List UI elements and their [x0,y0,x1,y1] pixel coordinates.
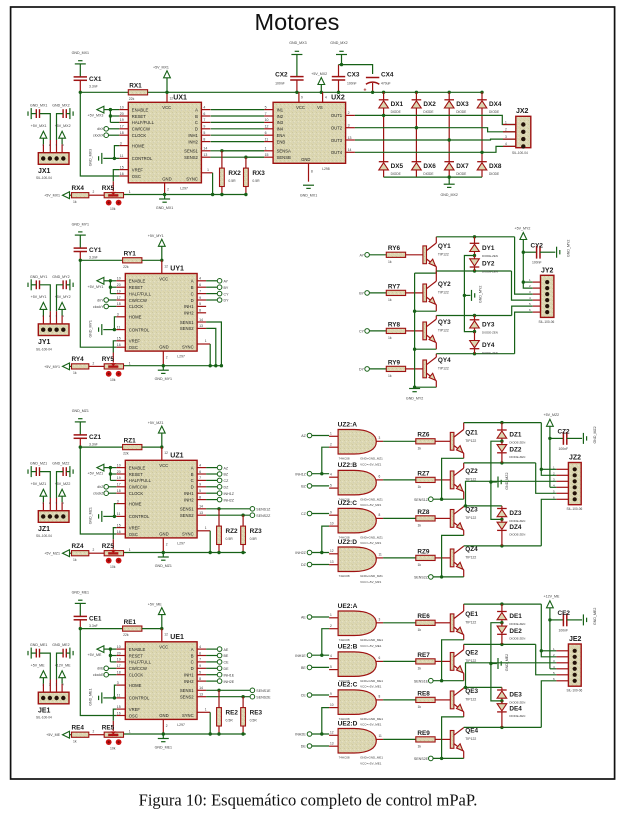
diode DE4 [497,701,525,728]
pin 9 VCC stub UX2 [299,92,303,102]
svg-text:6: 6 [199,651,201,655]
transistor QE2 TIP122 [450,649,478,673]
supply arrow +5V_MY1 [44,363,71,370]
svg-text:DIODE-ZEN: DIODE-ZEN [482,331,498,335]
resistor RE8 [416,690,435,709]
svg-text:SENS2: SENS2 [180,695,194,700]
ground GND_MY2 zeners [464,286,482,303]
svg-text:VCC=+5V_ME1: VCC=+5V_ME1 [360,685,382,689]
svg-text:INH2: INH2 [184,679,194,684]
svg-text:10: 10 [117,463,121,467]
pin 12 VCC stub [162,260,168,273]
svg-text:VCC=+5V_ME1: VCC=+5V_ME1 [360,723,382,727]
junction top col DX4 [480,91,483,94]
svg-text:+5V_ME: +5V_ME [46,733,60,737]
svg-text:SENS1Z: SENS1Z [414,498,429,502]
svg-text:CZ1: CZ1 [89,434,102,441]
svg-text:UZ2:B: UZ2:B [338,462,358,469]
svg-text:5: 5 [330,665,332,669]
svg-text:RE2: RE2 [226,709,239,716]
svg-text:10: 10 [117,645,121,649]
svg-text:A: A [191,647,194,652]
wire emitter QY4 [413,381,436,389]
node AY [206,279,229,284]
svg-text:RZ3: RZ3 [250,528,263,535]
svg-text:11: 11 [379,734,383,738]
transistor QZ3 TIP122 [450,506,478,530]
svg-text:7: 7 [203,118,205,122]
svg-text:13: 13 [203,153,207,157]
svg-text:OUT3: OUT3 [331,138,343,143]
svg-text:DIODE: DIODE [489,172,499,176]
svg-text:+5V_MY2: +5V_MY2 [55,295,71,299]
node INH2E input [295,732,312,737]
svg-text:+5V_MY1: +5V_MY1 [44,365,60,369]
trimmer RY5 [102,356,131,382]
svg-text:19: 19 [117,658,121,662]
svg-text:B: B [191,285,194,290]
svg-text:DX1: DX1 [391,101,404,108]
wire BY to JY2 pin4 [512,271,533,300]
svg-text:9: 9 [199,483,201,487]
svg-text:B: B [191,472,194,477]
svg-text:4: 4 [199,277,201,281]
node clockY [93,304,116,309]
wire SENS2 net [210,156,264,159]
svg-text:20: 20 [117,470,121,474]
connector JE1 [36,682,69,719]
wire SENS2 to ground rail [206,328,217,367]
svg-text:2: 2 [166,542,168,546]
svg-text:DIODE-ZEN: DIODE-ZEN [509,714,525,718]
diode DY1 [470,237,498,258]
node BZ [206,472,229,477]
svg-text:GND_MX2: GND_MX2 [330,41,347,45]
svg-text:SIL-100-04: SIL-100-04 [36,176,52,180]
capacitor CE2 [550,610,582,633]
ground GND_MY1 [72,222,89,248]
svg-text:RZ6: RZ6 [417,432,430,439]
wire base RE6 [435,622,450,624]
svg-text:2: 2 [166,724,168,728]
wire SENS1 net [206,507,271,512]
wire base RZ9 [435,557,450,559]
svg-text:8: 8 [199,677,201,681]
svg-text:74HC08: 74HC08 [339,574,350,578]
svg-text:1k: 1k [418,628,422,632]
node AY [359,253,386,258]
supply arrow +5V_MZ2 [55,482,71,514]
ground GND_MX1 [72,51,89,77]
node CZ [206,478,229,483]
svg-text:+12V_ME: +12V_ME [55,663,71,667]
svg-text:1: 1 [265,147,267,151]
svg-text:INH2E: INH2E [295,733,306,737]
svg-text:1: 1 [205,339,207,343]
wire phase AZ [464,421,542,424]
svg-text:10: 10 [265,118,269,122]
junction CE2 [548,618,551,621]
svg-text:15: 15 [265,153,269,157]
capacitor JZ1 bypass 2 [57,467,70,514]
svg-text:GND_MY2: GND_MY2 [52,275,69,279]
svg-text:DY4: DY4 [482,342,495,349]
diode DX8 [477,162,502,177]
node dirE [97,666,116,671]
svg-text:2: 2 [93,730,95,734]
wire gate out A [383,440,416,442]
svg-text:DZ4: DZ4 [509,524,522,531]
svg-text:CLOCK: CLOCK [129,304,144,309]
svg-text:QZ4: QZ4 [465,546,478,553]
wire OSC net [80,447,116,534]
wire emitter QY3 [413,343,436,351]
node CE [206,660,229,665]
wire OSC net [80,92,119,176]
ground GND_MX1 [28,104,47,120]
svg-text:1k: 1k [418,745,422,749]
svg-text:RZ2: RZ2 [226,528,239,535]
svg-text:clockY: clockY [93,305,104,309]
svg-text:ENABLE: ENABLE [129,465,146,470]
svg-text:L297: L297 [177,355,185,359]
svg-text:3: 3 [117,499,119,503]
svg-text:10k: 10k [110,378,116,382]
svg-text:SENSB: SENSB [277,155,291,160]
wire collector QY3 [435,316,437,320]
svg-text:20: 20 [120,112,124,116]
svg-text:INH2: INH2 [184,497,194,502]
wire phase CZ [464,504,502,507]
svg-text:SIL-100-04: SIL-100-04 [512,151,528,155]
svg-text:+5V_MY1: +5V_MY1 [88,285,104,289]
svg-text:dirX: dirX [97,127,104,131]
wire base RE8 [435,699,450,701]
svg-text:4: 4 [505,142,507,146]
capacitor CE1 [74,615,102,628]
connector JZ2 [553,455,582,512]
svg-text:clockE: clockE [93,673,104,677]
svg-text:4: 4 [330,654,332,658]
svg-text:DIODE: DIODE [423,172,433,176]
svg-text:470uF: 470uF [381,82,391,86]
svg-text:TIP122: TIP122 [465,439,476,443]
wire base RZ8 [435,517,450,519]
resistor RX3 [244,157,266,196]
wire emitter bus row2 [414,273,416,388]
svg-text:74HC08: 74HC08 [339,756,350,760]
capacitor CY2 [523,242,555,264]
svg-text:HALF/FULL: HALF/FULL [129,478,152,483]
svg-text:+5V_MX3: +5V_MX3 [88,114,104,118]
svg-text:13: 13 [199,324,203,328]
svg-text:17: 17 [117,296,121,300]
svg-text:DIODE: DIODE [489,110,499,114]
wire C input [312,694,329,696]
svg-text:SIL-100-06: SIL-100-06 [567,507,583,511]
AND gate UE2:D 74HC08 [329,720,383,765]
AND gate UZ2:C 74HC08 [329,500,383,545]
svg-text:2: 2 [166,356,168,360]
UX1 left pin stubs [119,105,128,176]
svg-text:8: 8 [199,495,201,499]
supply arrow +5V_MZ1 [44,550,71,557]
svg-text:GND: GND [159,531,168,536]
svg-text:JY1: JY1 [38,339,51,346]
svg-text:JZ2: JZ2 [569,455,581,462]
supply arrow +5V_ME [31,663,47,695]
svg-text:15: 15 [120,165,124,169]
svg-text:DIODE-ZEN: DIODE-ZEN [482,254,498,258]
svg-text:B: B [195,114,198,119]
ground GND_ME1 [155,719,172,749]
resistor RZ9 [416,548,435,567]
wire OSC net [80,260,116,347]
resistor RZ6 [416,432,435,451]
node DZ [206,485,229,490]
svg-text:SIL-100-06: SIL-100-06 [539,320,555,324]
svg-text:1: 1 [505,120,507,124]
svg-text:+5V_ME: +5V_ME [148,602,162,606]
resistor RZ1 [123,438,142,456]
svg-text:RZ8: RZ8 [417,509,430,516]
svg-text:DZ3: DZ3 [509,510,522,517]
svg-text:6: 6 [379,475,381,479]
svg-text:1k: 1k [73,200,77,204]
node AE [206,647,229,652]
diode DY3 [470,316,498,335]
svg-text:VREF: VREF [132,167,144,172]
svg-text:OUT2: OUT2 [331,126,343,131]
capacitor CX3 [332,65,360,94]
svg-text:GND_MY1: GND_MY1 [89,320,93,337]
connector JX1 [36,143,69,180]
wire phase DY [436,352,514,355]
svg-text:RY5: RY5 [102,356,115,363]
wire B input [312,485,329,487]
svg-text:12: 12 [265,125,269,129]
svg-text:SIL-100-04: SIL-100-04 [36,347,52,351]
supply arrow +5V_MY2 [515,227,531,283]
svg-text:11: 11 [117,512,121,516]
AND gate UZ2:B 74HC08 [329,462,383,507]
svg-text:RE6: RE6 [417,613,430,620]
svg-text:INH1E: INH1E [295,654,306,658]
diode DE2 [497,623,525,645]
svg-text:AE: AE [224,648,229,652]
svg-text:6: 6 [203,112,205,116]
svg-text:CX4: CX4 [381,72,394,79]
wire base RE9 [435,738,450,740]
wire ground rail [124,552,246,554]
svg-text:1k: 1k [418,705,422,709]
svg-text:DE2: DE2 [509,628,522,635]
svg-text:11: 11 [120,154,124,158]
wire R4-R5 [89,361,104,366]
diode DE1 [497,604,525,626]
svg-text:7: 7 [199,289,201,293]
capacitor JE1 bypass 1 [31,649,50,696]
svg-text:GND_MX1: GND_MX1 [300,194,317,198]
node INH2E [206,679,235,684]
node SENS2Z emitters [414,575,433,580]
svg-text:DY2: DY2 [482,261,495,268]
svg-text:1: 1 [207,168,209,172]
svg-text:CY: CY [359,330,365,334]
svg-text:RZ9: RZ9 [417,548,430,555]
svg-text:Figura 10: Esquemático complet: Figura 10: Esquemático completo de contr… [139,791,478,810]
svg-text:2: 2 [167,187,169,191]
diode DE3 [497,687,525,704]
svg-text:RE7: RE7 [417,652,430,659]
wire collector QE1 [463,604,465,611]
resistor RE6 [416,613,435,632]
wire AZ to JZ2 pins 1-2 [540,423,557,476]
wire base RY6 [406,254,423,256]
wire emitters QE1/QE2 [433,635,464,683]
svg-text:GND_ME1: GND_ME1 [30,643,47,647]
junction DY3/DY4 [473,330,476,333]
svg-text:RZ7: RZ7 [417,470,430,477]
svg-text:DY: DY [359,368,365,372]
svg-text:+5V_MZ1: +5V_MZ1 [44,552,60,556]
supply arrow +5V_MX1 [44,192,71,199]
junction CX1/net [79,91,82,94]
node SENS2E emitters [414,756,433,761]
svg-text:QZ1: QZ1 [465,429,478,436]
svg-text:BZ: BZ [301,485,306,489]
UE1 right pin stubs [197,645,206,697]
svg-text:CW/CCW: CW/CCW [132,127,150,132]
svg-text:SENS1E: SENS1E [256,689,271,693]
node BY [359,291,386,296]
svg-text:GND+GND_MZ1: GND+GND_MZ1 [360,457,383,461]
svg-text:74HC08: 74HC08 [339,457,350,461]
wire zener midpoints [463,256,475,332]
svg-text:clockZ: clockZ [93,492,104,496]
svg-text:VCC=+5V_MZ1: VCC=+5V_MZ1 [360,580,382,584]
capacitor CX4 electrolytic [364,72,394,95]
wire base RY8 [406,330,423,332]
svg-text:12: 12 [164,264,168,268]
svg-text:INH2E: INH2E [224,680,235,684]
svg-text:QY3: QY3 [438,319,451,326]
resistor RY7 [386,283,405,302]
svg-text:AE: AE [301,616,306,620]
svg-text:1k: 1k [73,739,77,743]
svg-text:GND_MZ2: GND_MZ2 [593,426,597,443]
svg-text:DX6: DX6 [423,163,436,170]
svg-text:VREF: VREF [129,707,141,712]
wire +5V to JY2 pin1 [522,280,533,283]
svg-text:5: 5 [265,105,267,109]
wire C input [312,513,329,515]
UZ1 left pin stubs [116,463,125,534]
svg-text:UZ2:D: UZ2:D [338,539,358,546]
svg-text:VCC: VCC [296,105,305,110]
supply arrow +12V_ME [55,663,71,695]
svg-text:7: 7 [199,476,201,480]
svg-text:8: 8 [203,137,205,141]
svg-text:DX8: DX8 [489,163,502,170]
svg-text:VS: VS [317,105,323,110]
resistor RZ2 [217,509,238,554]
supply arrow +5V_MY1 [148,234,165,260]
svg-text:L297: L297 [177,541,185,545]
resistor RE4 [72,724,89,743]
node INH2Z input [295,550,311,555]
svg-text:DX7: DX7 [456,163,469,170]
svg-text:BE: BE [301,666,306,670]
transistor QE4 TIP122 [450,727,478,751]
svg-text:SENS2: SENS2 [180,513,194,518]
svg-text:DZ: DZ [301,563,307,567]
wire cap to RZ1 [80,446,122,448]
svg-text:GND_MX1: GND_MX1 [72,51,89,55]
svg-text:11: 11 [117,694,121,698]
svg-text:1k: 1k [73,558,77,562]
wire R4-R5 [89,730,104,735]
diode DX7 [444,162,469,177]
svg-text:GND_MX3: GND_MX3 [289,41,306,45]
ground GND_MY2 emitters [406,389,423,401]
svg-text:CE: CE [301,694,307,698]
wire SENS2 net [206,694,271,699]
svg-text:+5V_MZ1: +5V_MZ1 [31,482,47,486]
transistor QY4 TIP122 [423,357,451,381]
svg-text:UE2:B: UE2:B [338,644,358,651]
svg-text:JY2: JY2 [541,267,554,274]
svg-text:0.5R: 0.5R [250,719,258,723]
svg-text:3.3nF: 3.3nF [89,85,98,89]
wire D input [312,564,329,566]
wire gate out B [383,479,416,481]
svg-text:DE: DE [301,745,307,749]
svg-text:0.5R: 0.5R [250,537,258,541]
resistor RZ7 [416,470,435,489]
ground GND_MX1 under UX2 [300,163,317,197]
svg-text:6: 6 [199,283,201,287]
wire zener midpoints E [489,623,502,701]
svg-text:Motores: Motores [255,9,340,35]
svg-text:AY: AY [224,280,229,284]
svg-text:RE1: RE1 [124,619,137,626]
resistor RY4 [72,356,89,375]
pin 4 VS stub UX2 [323,92,327,102]
svg-text:RE5: RE5 [102,724,115,731]
svg-text:6: 6 [199,470,201,474]
svg-text:TIP122: TIP122 [465,737,476,741]
wire gate out D [383,557,416,559]
svg-text:INH2: INH2 [188,139,198,144]
svg-text:1k: 1k [418,524,422,528]
svg-text:5: 5 [203,131,205,135]
svg-text:CZ: CZ [224,479,230,483]
svg-text:3: 3 [379,436,381,440]
ground GND_ME2 [52,643,73,659]
svg-text:4: 4 [203,105,205,109]
svg-text:UZ2:C: UZ2:C [338,500,358,507]
svg-text:12: 12 [164,451,168,455]
svg-text:+5V_MX1: +5V_MX1 [31,124,47,128]
svg-text:GND+GND_ME1: GND+GND_ME1 [360,756,383,760]
svg-text:3.3nF: 3.3nF [89,443,98,447]
svg-text:clockX: clockX [93,134,104,138]
wire VREF to trimmer [113,341,116,363]
svg-text:14: 14 [199,505,203,509]
svg-text:GND: GND [162,176,171,181]
IC UZ1 L297 [125,453,197,546]
